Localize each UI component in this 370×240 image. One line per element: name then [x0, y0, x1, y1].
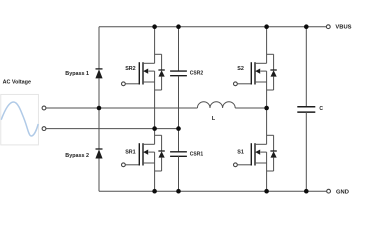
junction bottom rail / CSR1 bottom — [176, 189, 181, 194]
wire S1 source to bottom rail — [266, 152, 268, 191]
wire bypass column top — [98, 27, 100, 69]
wire S2 source to node B (right leg midpoint) — [266, 71, 268, 108]
wire node A to SR1 drain — [154, 129, 156, 145]
junction top rail / CSR2 top — [176, 24, 181, 29]
transistor S1 — [234, 135, 277, 171]
transistor SR2 — [122, 54, 165, 90]
bottom rail (GND) — [99, 190, 327, 192]
wire output cap column top — [305, 27, 307, 107]
capacitor CSR1 — [170, 151, 203, 157]
diode Bypass 1 — [65, 69, 102, 79]
svg-text:Bypass 2: Bypass 2 — [65, 153, 89, 159]
wire CSR1 to bottom rail — [178, 156, 180, 191]
junction dot AC line2 / left leg midpoint — [152, 126, 157, 131]
wire CSR1 column — [178, 129, 180, 152]
transistor SR1 — [122, 135, 165, 171]
svg-text:GND: GND — [336, 189, 349, 195]
wire output cap column bottom — [305, 112, 307, 191]
wire S2 drain to top rail — [266, 27, 268, 64]
wire bypass bottom — [98, 159, 100, 192]
diode Bypass 2 — [65, 149, 102, 159]
wire CSR2 column — [178, 27, 180, 71]
svg-text:CSR2: CSR2 — [190, 70, 204, 76]
svg-text:S1: S1 — [237, 150, 244, 156]
wire SR2 source to node A (left leg midpoint) — [154, 71, 156, 129]
capacitor C — [297, 106, 323, 112]
transistor S2 — [234, 54, 277, 90]
wire node B to S1 drain — [266, 108, 268, 144]
node GND terminal — [327, 189, 349, 195]
top rail (VBUS) — [99, 26, 326, 28]
wire bypass mid — [98, 78, 100, 149]
wire AC line 1 — [46, 107, 197, 109]
AC source terminal 1 — [42, 106, 46, 110]
svg-text:Bypass 1: Bypass 1 — [65, 71, 89, 77]
capacitor CSR2 — [170, 70, 203, 76]
junction dot AC line1 / bypass — [97, 106, 102, 111]
svg-text:VBUS: VBUS — [335, 25, 351, 31]
wire CSR2 to midpoint — [178, 76, 180, 129]
junction bottom rail / S1 source — [264, 189, 269, 194]
junction dot inductor / right leg midpoint — [264, 106, 269, 111]
AC voltage sine box — [1, 94, 39, 144]
junction top rail / C top — [304, 24, 309, 29]
svg-text:CSR1: CSR1 — [190, 151, 204, 157]
svg-text:S2: S2 — [237, 66, 244, 72]
wire inductor to right leg midpoint — [235, 107, 266, 109]
svg-text:C: C — [319, 106, 323, 112]
wire AC line 2 — [46, 128, 179, 130]
node VBUS terminal — [326, 25, 351, 31]
junction bottom rail / SR1 source — [152, 189, 157, 194]
wire SR1 source to bottom rail — [154, 152, 156, 191]
svg-text:SR1: SR1 — [125, 150, 136, 156]
junction bottom rail / C bottom — [304, 189, 309, 194]
junction top rail / SR2 drain — [152, 24, 157, 29]
junction top rail / S2 drain — [264, 24, 269, 29]
inductor L — [197, 102, 235, 123]
svg-text:AC Voltage: AC Voltage — [3, 79, 31, 85]
AC source terminal 2 — [42, 127, 46, 131]
junction dot AC line2 / CSR column — [176, 126, 181, 131]
svg-text:SR2: SR2 — [125, 66, 136, 72]
wire SR2 drain to top rail — [154, 27, 156, 64]
